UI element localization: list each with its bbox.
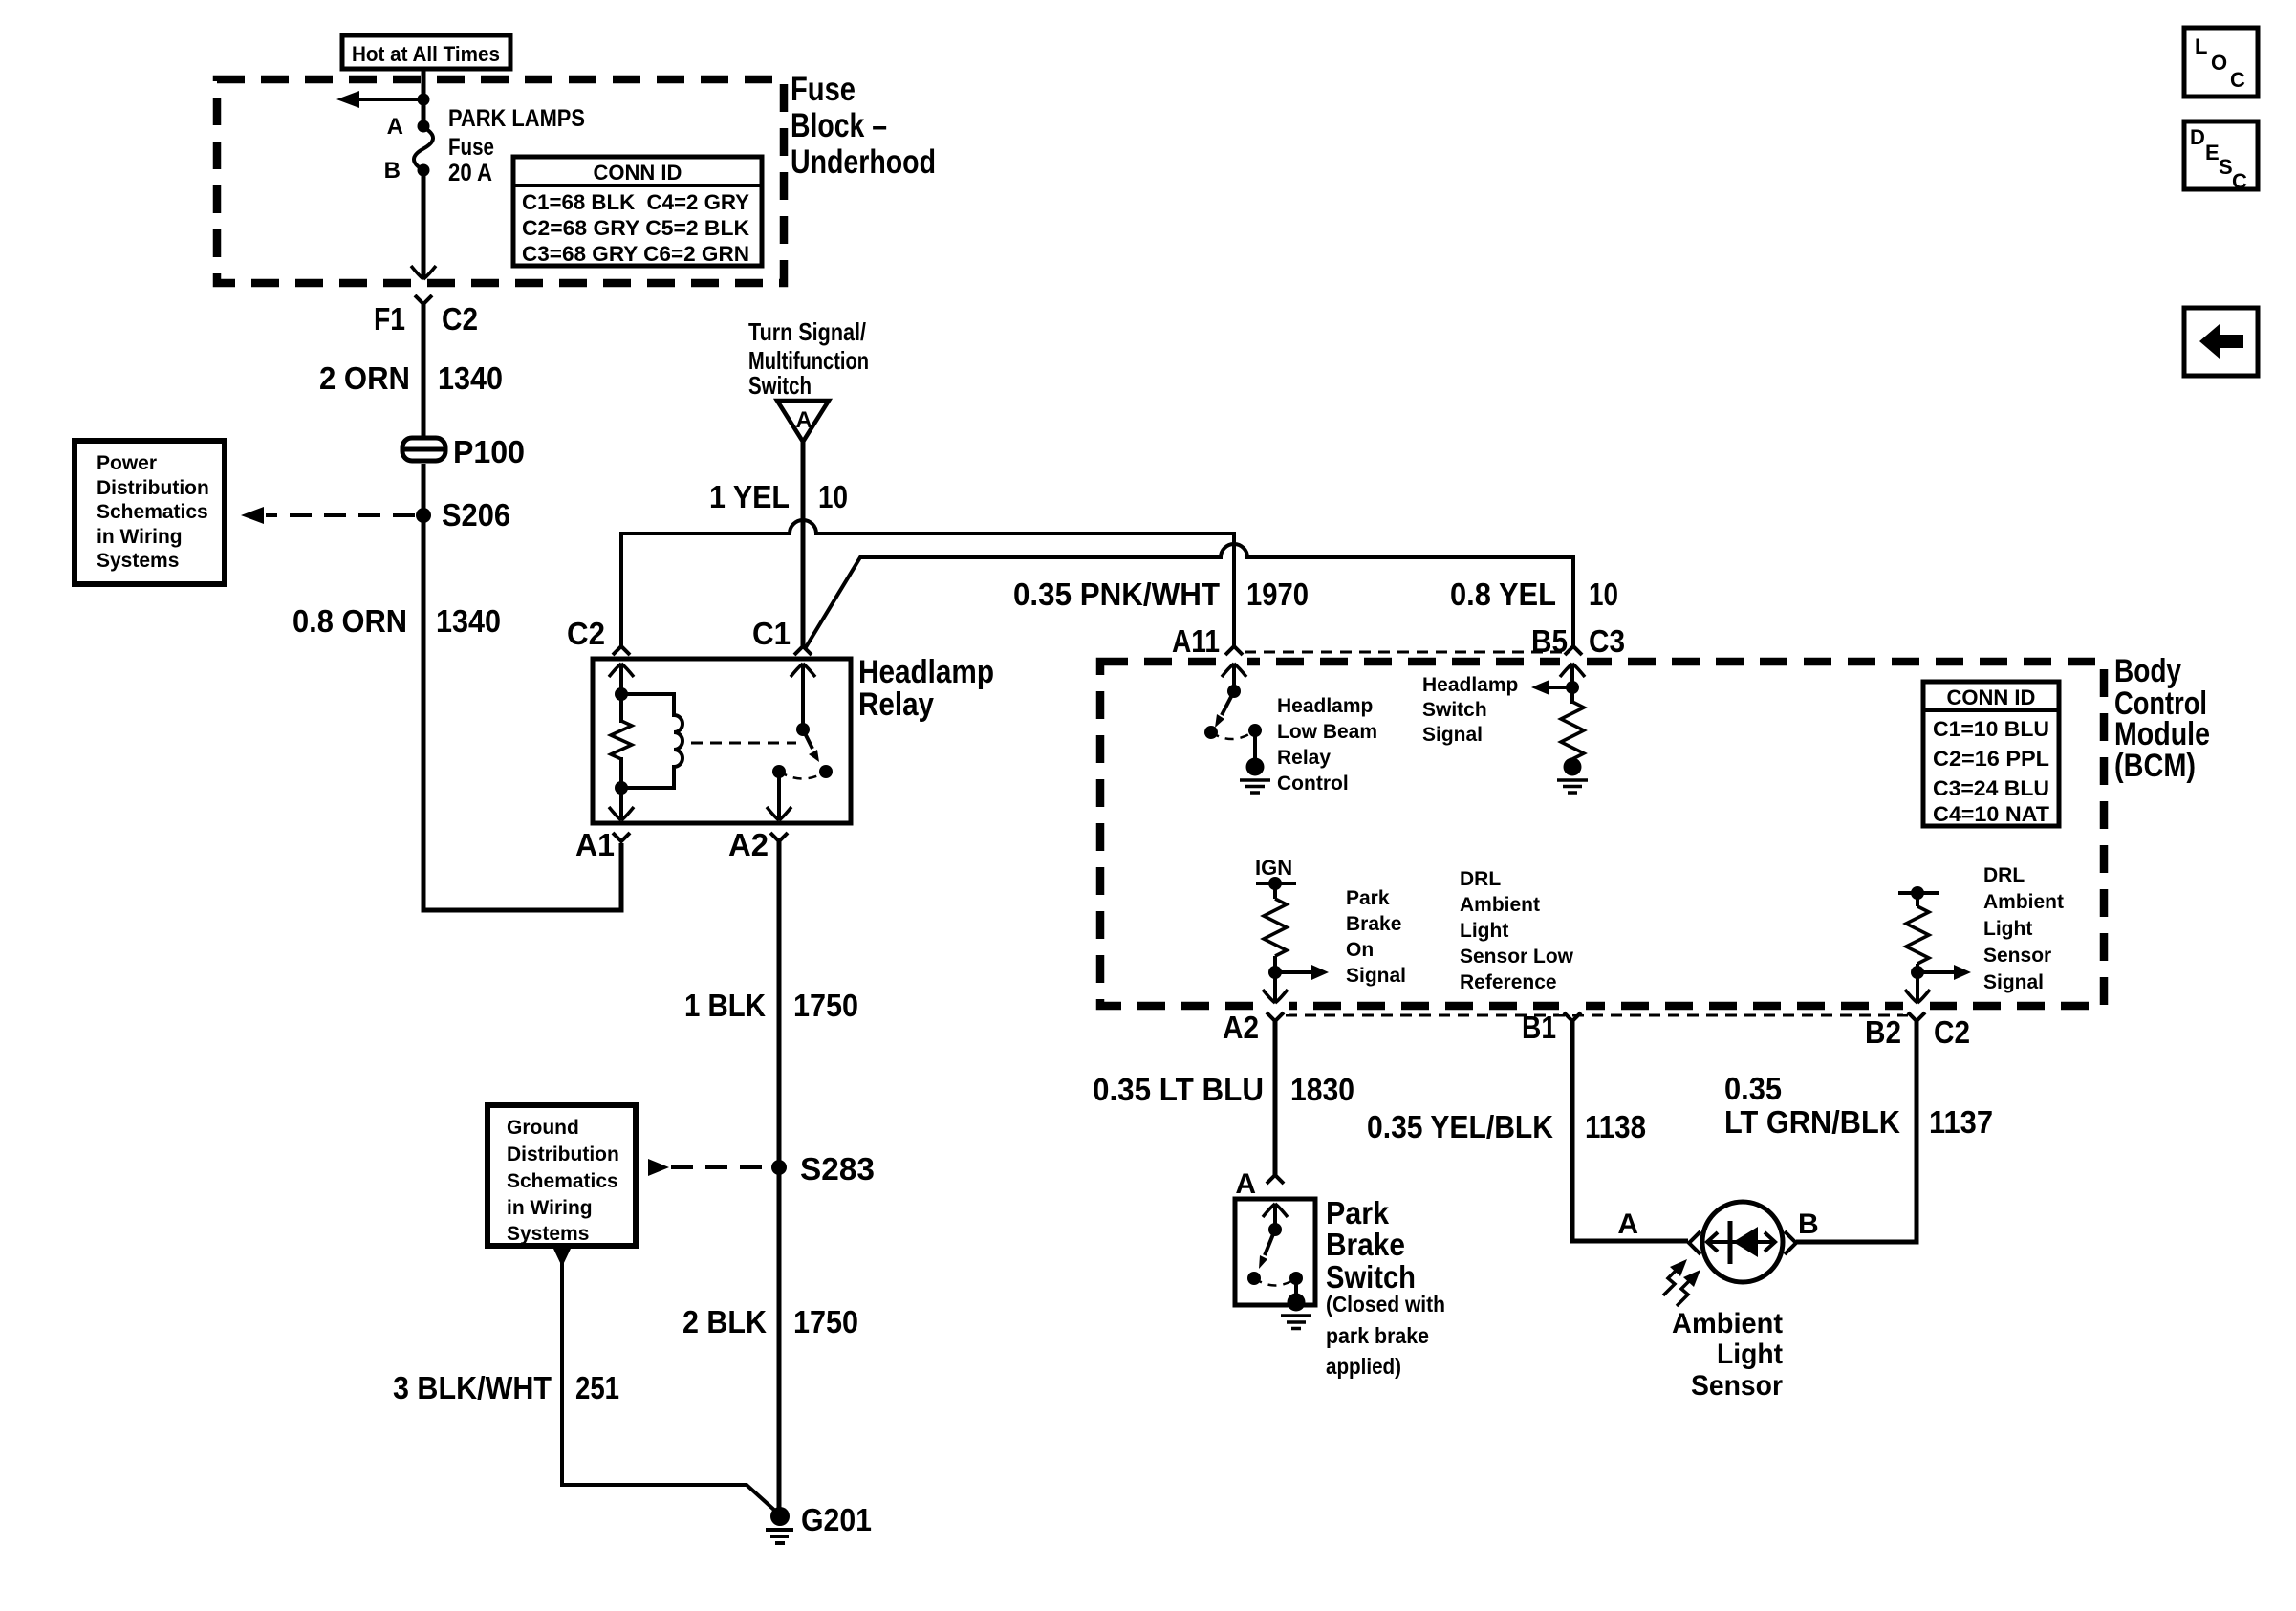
node NO contact <box>819 765 833 778</box>
svg-text:Turn Signal/: Turn Signal/ <box>748 317 866 346</box>
wire 2 ORN 1340 (F1/C2 to P100) <box>422 304 426 441</box>
back arrow button box <box>2184 308 2258 376</box>
svg-text:G201: G201 <box>801 1502 872 1537</box>
ground (BCM driver) <box>1240 758 1270 794</box>
svg-text:Sensor Low: Sensor Low <box>1460 946 1574 968</box>
svg-text:S: S <box>2219 155 2233 179</box>
svg-text:Ambient: Ambient <box>1672 1308 1783 1339</box>
svg-text:E: E <box>2205 141 2220 164</box>
pin B chevron (sensor) <box>1785 1231 1796 1254</box>
svg-text:Park: Park <box>1326 1195 1390 1230</box>
svg-text:1750: 1750 <box>793 1304 858 1339</box>
svg-text:0.8 YEL: 0.8 YEL <box>1450 577 1556 612</box>
wire 0.35 LT BLU from BCM A2 to park brake switch <box>1273 1021 1278 1175</box>
label PARK LAMPS Fuse 20 A <box>448 105 585 186</box>
svg-text:DRL: DRL <box>1460 868 1501 890</box>
svg-text:B5: B5 <box>1531 623 1568 659</box>
svg-text:B: B <box>384 158 401 184</box>
svg-text:Fuse: Fuse <box>791 71 856 108</box>
svg-text:Schematics: Schematics <box>97 501 208 523</box>
svg-text:C1=68 BLK C4=2 GRY: C1=68 BLK C4=2 GRY <box>522 190 749 214</box>
IGN feed bar <box>1256 882 1296 885</box>
svg-text:Switch: Switch <box>1326 1259 1416 1295</box>
resistor (ambient light sensor pullup) <box>1906 893 1929 972</box>
wire 0.35 PNK/WHT from relay C2 to BCM A11 (hops over 1 YEL wire) <box>621 520 1234 646</box>
svg-text:IGN: IGN <box>1255 856 1292 880</box>
connector dashed line A2 to B2 <box>1286 1014 1908 1017</box>
svg-text:P100: P100 <box>453 434 525 469</box>
node ambient light sense <box>1911 966 1924 979</box>
svg-text:A2: A2 <box>1223 1010 1259 1045</box>
Ambient Light Sensor photodiode <box>1702 1202 1783 1282</box>
resistor (relay suppression) <box>611 721 632 759</box>
label Ground Distribution Schematics in Wiring Systems <box>507 1117 619 1245</box>
node switch contact left <box>1204 726 1218 739</box>
svg-text:10: 10 <box>818 479 848 514</box>
svg-text:Relay: Relay <box>858 686 934 723</box>
pin A11 chevron (BCM) <box>1225 646 1243 655</box>
node headlamp switch signal <box>1566 681 1579 694</box>
wire 0.35 YEL/BLK from BCM B1 to sensor A <box>1572 1021 1688 1241</box>
splice S206 <box>416 508 431 523</box>
node DRL feed <box>1911 886 1924 900</box>
wire 0.35 LT GRN/BLK from sensor B to BCM B2 <box>1796 1021 1917 1242</box>
svg-text:Headlamp: Headlamp <box>1277 695 1373 717</box>
svg-text:3 BLK/WHT: 3 BLK/WHT <box>393 1370 552 1405</box>
LOC button box <box>2184 28 2258 97</box>
BCM headlamp switch signal input: entry arrow <box>1560 664 1585 704</box>
pin B5/C3 chevron (BCM) <box>1565 646 1582 655</box>
dashed wire Ground Distribution to S283 with arrow <box>648 1159 770 1176</box>
svg-text:Distribution: Distribution <box>97 477 209 499</box>
svg-text:0.35: 0.35 <box>1724 1071 1782 1106</box>
pin C1 chevron (relay) <box>794 646 812 655</box>
relay switch arm (arrow) <box>803 729 819 762</box>
svg-text:C1: C1 <box>752 616 791 651</box>
svg-text:Sensor: Sensor <box>1983 945 2051 967</box>
wire from Hot at All Times into fuse block <box>422 69 426 128</box>
svg-text:A11: A11 <box>1172 623 1220 659</box>
svg-text:applied): applied) <box>1326 1354 1401 1379</box>
pin A1 chevron (relay) <box>613 833 630 841</box>
label Park Brake On Signal <box>1346 887 1406 987</box>
Ground Distribution box <box>487 1105 636 1246</box>
svg-text:Headlamp: Headlamp <box>858 654 994 690</box>
pin A chevron (sensor) <box>1689 1231 1700 1254</box>
park brake switch arm (arrow) <box>1259 1230 1275 1269</box>
svg-text:Sensor: Sensor <box>1691 1370 1783 1402</box>
svg-text:Low Beam: Low Beam <box>1277 721 1377 743</box>
arrow to DRL Ambient Light Sensor Signal label <box>1917 965 1971 980</box>
node coil bottom <box>615 781 628 795</box>
svg-text:Block –: Block – <box>791 107 887 144</box>
svg-text:Hot at All Times: Hot at All Times <box>352 42 500 66</box>
node switch contact right <box>1248 724 1262 737</box>
resistor (park brake pullup) <box>1264 883 1287 972</box>
svg-text:Brake: Brake <box>1346 913 1401 935</box>
driver switch arm (arrow) <box>1215 691 1234 728</box>
svg-text:CONN ID: CONN ID <box>1947 686 2036 709</box>
svg-text:1970: 1970 <box>1246 577 1309 612</box>
label Headlamp Low Beam Relay Control <box>1277 695 1377 795</box>
svg-text:A: A <box>1235 1168 1256 1200</box>
svg-text:251: 251 <box>575 1370 619 1405</box>
dashed actuator link <box>691 742 796 745</box>
ground (headlamp switch signal) <box>1557 758 1588 794</box>
svg-text:C: C <box>2230 68 2245 92</box>
node pin B dot <box>418 164 430 177</box>
splice S283 <box>771 1160 787 1175</box>
node park brake contact left <box>1247 1272 1261 1285</box>
svg-text:C: C <box>2232 169 2247 193</box>
dashed wire S206 to Power Distribution with arrow <box>241 507 415 524</box>
pin gaps in BCM border <box>1221 654 1930 1014</box>
wire 2 BLK from S283 to G201 <box>777 1167 782 1513</box>
svg-text:S206: S206 <box>442 497 510 533</box>
fuse F1 PARK LAMPS 20A symbol <box>414 127 433 170</box>
svg-text:C2=68 GRY C5=2 BLK: C2=68 GRY C5=2 BLK <box>522 216 749 240</box>
wire to internal ground <box>1253 730 1257 761</box>
label Park Brake Switch <box>1326 1195 1416 1295</box>
svg-text:Relay: Relay <box>1277 747 1331 769</box>
node common contact <box>772 765 786 778</box>
dashed contact arc (driver) <box>1211 730 1255 739</box>
svg-text:2 ORN: 2 ORN <box>319 360 410 396</box>
svg-text:C4=10 NAT: C4=10 NAT <box>1933 802 2050 826</box>
svg-text:1137: 1137 <box>1929 1104 1993 1140</box>
svg-text:C2: C2 <box>567 616 605 651</box>
svg-text:C1=10 BLU: C1=10 BLU <box>1933 717 2049 741</box>
wire 0.8 ORN below P100 <box>422 464 426 913</box>
svg-text:L: L <box>2195 34 2207 58</box>
dashed contact arc <box>779 772 826 779</box>
pin A2 chevron (relay) <box>770 833 788 841</box>
svg-text:S283: S283 <box>800 1151 875 1186</box>
label Headlamp Switch Signal <box>1422 674 1518 746</box>
svg-text:B: B <box>1798 1208 1819 1240</box>
svg-text:10: 10 <box>1589 577 1618 612</box>
wire ambient light sense to B2 with arrow <box>1905 972 1930 1003</box>
svg-text:Light: Light <box>1460 920 1508 942</box>
svg-text:LT GRN/BLK: LT GRN/BLK <box>1724 1104 1900 1140</box>
node switch pivot <box>796 723 810 736</box>
DRL ambient light sensor feed bar <box>1898 891 1939 895</box>
Fuse Block - Underhood dashed box <box>217 79 784 283</box>
svg-text:Underhood: Underhood <box>791 143 936 181</box>
svg-text:(Closed with: (Closed with <box>1326 1292 1445 1317</box>
pin A2 chevron (BCM bottom) <box>1267 1012 1284 1021</box>
label DRL Ambient Light Sensor Signal <box>1983 864 2064 993</box>
CONN ID table (fuse block) <box>513 157 762 266</box>
svg-text:1138: 1138 <box>1585 1109 1646 1144</box>
svg-text:0.35 LT BLU: 0.35 LT BLU <box>1093 1072 1264 1107</box>
wire contact to case ground <box>1294 1278 1298 1296</box>
relay coil branch wire with entry arrow <box>609 664 634 820</box>
label Ambient Light Sensor <box>1672 1308 1783 1402</box>
svg-text:Power: Power <box>97 452 157 474</box>
svg-text:(BCM): (BCM) <box>2114 748 2196 784</box>
label Power Distribution Schematics in Wiring Systems (top box text) <box>97 452 209 572</box>
label Turn Signal/Multifunction Switch <box>748 317 869 400</box>
Park Brake Switch box <box>1235 1199 1315 1305</box>
pin B1 chevron (BCM bottom) <box>1564 1012 1581 1021</box>
svg-text:C2: C2 <box>1934 1014 1970 1050</box>
svg-text:Systems: Systems <box>97 550 179 572</box>
svg-text:Reference: Reference <box>1460 971 1557 993</box>
svg-text:Control: Control <box>1277 773 1349 795</box>
svg-text:PARK LAMPS: PARK LAMPS <box>448 105 585 132</box>
connector P100 grommet <box>401 438 447 461</box>
svg-text:2 BLK: 2 BLK <box>682 1304 767 1339</box>
svg-text:1340: 1340 <box>438 360 503 396</box>
node pin A dot <box>418 120 430 133</box>
svg-text:1 YEL: 1 YEL <box>709 479 790 514</box>
arrow to Headlamp Switch Signal label <box>1531 680 1572 695</box>
svg-text:Distribution: Distribution <box>507 1143 619 1165</box>
node park brake sense <box>1268 966 1282 979</box>
pin F1 / C2 connector chevron <box>415 295 432 304</box>
svg-text:Brake: Brake <box>1326 1227 1405 1262</box>
label Body Control Module (BCM) <box>2114 653 2210 784</box>
node junction at power feed <box>418 94 430 106</box>
svg-text:1750: 1750 <box>793 988 858 1023</box>
arrow to Park Brake On Signal label <box>1275 965 1329 980</box>
svg-text:Switch: Switch <box>1422 699 1487 721</box>
svg-text:park brake: park brake <box>1326 1323 1429 1348</box>
svg-text:A: A <box>1617 1208 1638 1240</box>
label Fuse Block - Underhood <box>791 71 936 181</box>
wire 1 BLK from relay A2 to S283 <box>777 841 782 1167</box>
svg-text:C2=16 PPL: C2=16 PPL <box>1933 747 2049 771</box>
svg-text:A2: A2 <box>728 827 769 862</box>
svg-text:in Wiring: in Wiring <box>507 1197 593 1219</box>
svg-text:Body: Body <box>2114 653 2181 689</box>
node driver top <box>1227 685 1241 698</box>
ground G201 <box>766 1507 793 1543</box>
node IGN <box>1268 877 1282 890</box>
wire common contact to A2 with arrow <box>767 772 791 820</box>
dashed contact arc (park brake) <box>1254 1278 1296 1286</box>
pin B2/C2 chevron (BCM bottom) <box>1908 1012 1925 1021</box>
svg-text:DRL: DRL <box>1983 864 2025 886</box>
pin C2 chevron (relay) <box>613 646 630 655</box>
connector dashed line A11 to B5 <box>1245 651 1563 654</box>
svg-text:A: A <box>387 114 403 140</box>
svg-text:Light: Light <box>1983 918 2032 940</box>
svg-text:Ambient: Ambient <box>1460 894 1540 916</box>
svg-text:C3: C3 <box>1589 623 1625 659</box>
svg-text:F1: F1 <box>374 301 405 337</box>
svg-text:Signal: Signal <box>1346 965 1406 987</box>
svg-text:C2: C2 <box>442 301 478 337</box>
wire 1 YEL 10 from triangle to relay C1 <box>801 442 806 646</box>
relay common feed wire with entry arrow <box>791 664 815 729</box>
svg-text:B1: B1 <box>1522 1010 1556 1045</box>
svg-text:0.35 PNK/WHT: 0.35 PNK/WHT <box>1013 577 1220 612</box>
wire fuse B down to fuse block edge with arrow <box>411 170 436 279</box>
svg-text:1830: 1830 <box>1290 1072 1354 1107</box>
wire 3 BLK/WHT from ground distribution down to G201 <box>553 1249 776 1512</box>
svg-text:Ambient: Ambient <box>1983 891 2064 913</box>
node coil top <box>615 687 628 701</box>
wire 0.8 YEL from relay C1 to BCM B5/C3 (hops over PNK/WHT drop) <box>806 544 1573 647</box>
svg-text:0.35 YEL/BLK: 0.35 YEL/BLK <box>1367 1109 1553 1144</box>
CONN ID table (BCM) <box>1923 682 2059 826</box>
relay coil <box>621 694 682 788</box>
Power Distribution box (left middle) <box>75 441 225 584</box>
svg-text:1340: 1340 <box>436 603 501 639</box>
label box "Hot at All Times" <box>342 35 510 69</box>
svg-text:Switch: Switch <box>748 371 812 400</box>
svg-text:Park: Park <box>1346 887 1390 909</box>
svg-text:Headlamp: Headlamp <box>1422 674 1518 696</box>
svg-text:Light: Light <box>1717 1339 1783 1370</box>
label DRL Ambient Light Sensor Low Reference <box>1460 868 1574 993</box>
node park brake pivot <box>1268 1223 1282 1236</box>
svg-text:Systems: Systems <box>507 1223 589 1245</box>
svg-text:O: O <box>2211 51 2227 75</box>
svg-text:20 A: 20 A <box>448 160 492 186</box>
wire park brake sense to A2 with arrow <box>1263 972 1288 1003</box>
svg-text:C3=24 BLU: C3=24 BLU <box>1933 776 2049 800</box>
svg-text:On: On <box>1346 939 1374 961</box>
svg-text:in Wiring: in Wiring <box>97 526 183 548</box>
BCM low beam relay control driver: entry arrow and switch <box>1222 664 1246 691</box>
svg-text:CONN ID: CONN ID <box>594 161 682 185</box>
svg-text:Schematics: Schematics <box>507 1170 618 1192</box>
svg-text:A1: A1 <box>575 827 615 862</box>
ground (park brake switch) <box>1281 1294 1311 1329</box>
wire 0.8 ORN to relay A1 <box>422 843 622 910</box>
svg-text:Ground: Ground <box>507 1117 579 1139</box>
node park brake contact right <box>1289 1272 1303 1285</box>
svg-text:0.8 ORN: 0.8 ORN <box>292 603 407 639</box>
svg-text:Signal: Signal <box>1422 724 1483 746</box>
svg-text:B2: B2 <box>1865 1014 1901 1050</box>
svg-text:A: A <box>795 407 812 433</box>
Body Control Module (BCM) dashed box <box>1100 662 2104 1006</box>
resistor (headlamp switch signal pulldown) <box>1561 702 1584 759</box>
light rays (photodiode arrows) <box>1663 1259 1700 1306</box>
svg-text:Fuse: Fuse <box>448 134 494 161</box>
park brake switch arm: entry arrow <box>1263 1204 1288 1230</box>
svg-text:1 BLK: 1 BLK <box>684 988 766 1023</box>
DESC button box <box>2184 121 2258 193</box>
wire to Power Distribution (left arrow) <box>336 91 423 108</box>
svg-text:Signal: Signal <box>1983 971 2044 993</box>
label Headlamp Relay <box>858 654 994 723</box>
label (Closed with park brake applied) <box>1326 1292 1445 1379</box>
off-page connector triangle A (turn signal) <box>777 401 829 442</box>
svg-text:D: D <box>2190 125 2205 149</box>
pin A chevron (park brake switch) <box>1267 1175 1284 1184</box>
svg-text:C3=68 GRY C6=2 GRN: C3=68 GRY C6=2 GRN <box>522 242 749 266</box>
Headlamp Relay box <box>593 659 851 823</box>
